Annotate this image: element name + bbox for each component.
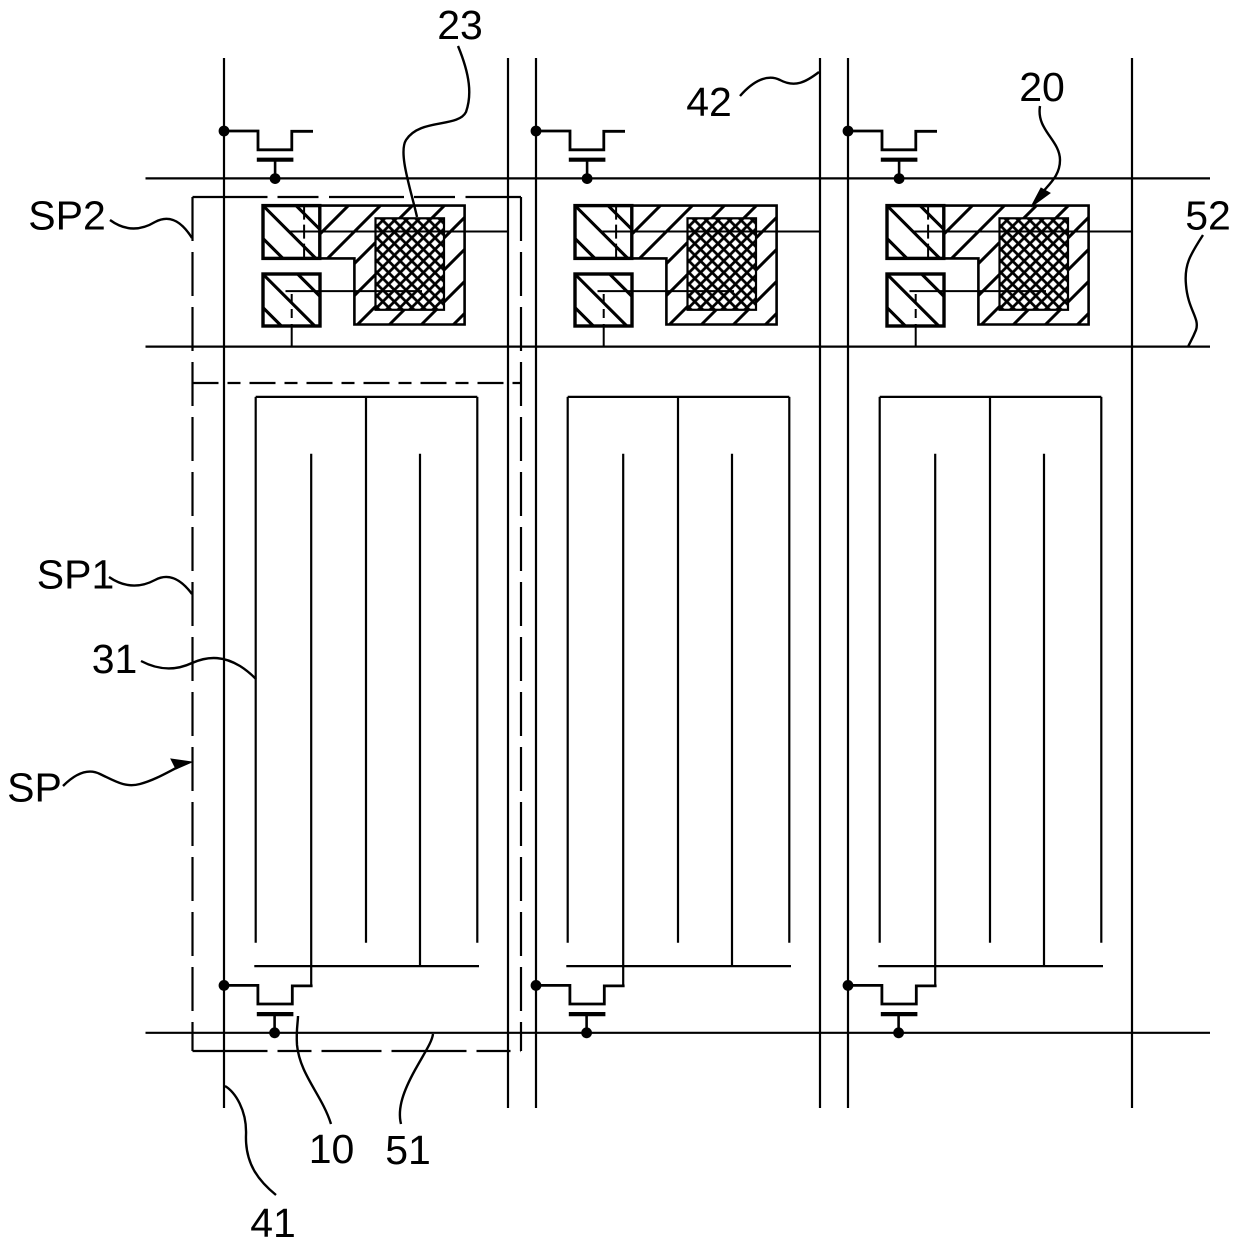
sub-pixel column 2	[531, 58, 820, 1108]
svg-text:42: 42	[686, 79, 732, 125]
svg-text:51: 51	[385, 1127, 431, 1173]
svg-text:SP1: SP1	[37, 552, 115, 598]
leader of label 51	[400, 1034, 433, 1124]
leader of label SP with arrow	[63, 759, 192, 786]
scan line 51 (bottom gate line)	[146, 1032, 1211, 1034]
leader of label 52	[1186, 235, 1203, 347]
SP1/SP2 divider (dashed line)	[193, 382, 522, 384]
common line 52 (horizontal)	[146, 346, 1211, 348]
sub-pixel SP boundary (dashed rectangle)	[193, 197, 522, 1051]
leader of label 23	[403, 46, 469, 217]
leader of label 10	[297, 1016, 331, 1124]
svg-text:23: 23	[437, 2, 483, 48]
sub-pixel column 3	[843, 58, 1132, 1108]
leader of label SP2	[110, 219, 192, 238]
leader of label 41	[225, 1086, 276, 1195]
svg-text:41: 41	[250, 1200, 296, 1246]
scan line (top gate line)	[146, 177, 1211, 179]
leader of label 31	[141, 658, 256, 679]
svg-text:31: 31	[92, 636, 138, 682]
leader of label 42	[740, 72, 819, 96]
svg-text:52: 52	[1185, 193, 1231, 239]
leader of label SP1	[109, 577, 192, 594]
sub-pixel column 1	[219, 58, 508, 1108]
svg-text:SP2: SP2	[28, 193, 106, 239]
svg-text:SP: SP	[7, 765, 62, 811]
svg-text:20: 20	[1019, 64, 1065, 110]
svg-text:10: 10	[309, 1126, 355, 1172]
leader of label 20 with arrow	[1031, 106, 1060, 207]
